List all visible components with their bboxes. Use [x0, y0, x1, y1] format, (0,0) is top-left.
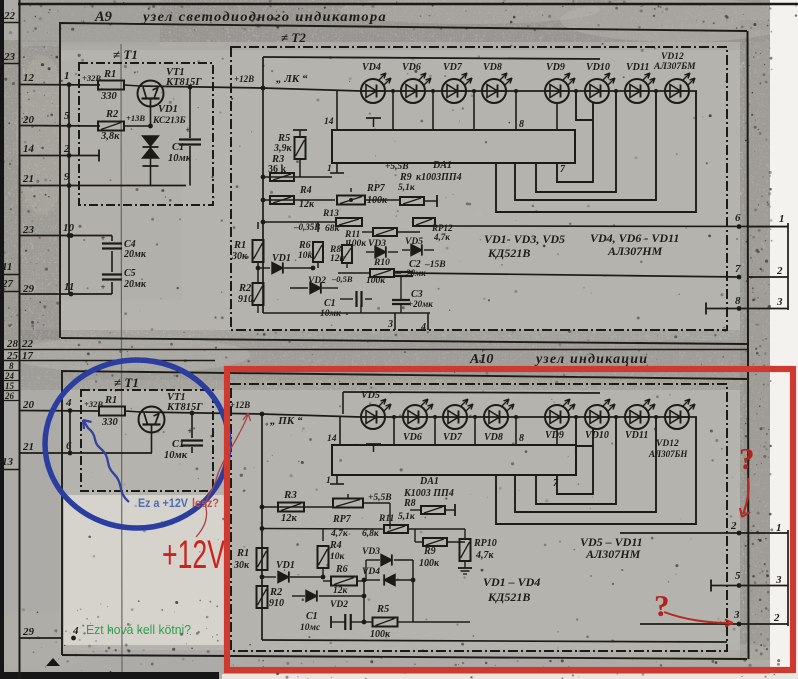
svg-text:6: 6: [735, 212, 741, 224]
svg-text:VD1: VD1: [272, 253, 291, 264]
pin 4 stub: [427, 313, 429, 330]
T2 dash-dot box (A10): [231, 384, 727, 651]
svg-text:VD5: VD5: [361, 390, 380, 401]
svg-text:VD3: VD3: [368, 239, 386, 249]
svg-text:КТ815Г: КТ815Г: [166, 402, 203, 413]
svg-text:2: 2: [773, 612, 780, 624]
svg-text:VD9: VD9: [545, 430, 564, 441]
T1 dash-dot box: [79, 63, 213, 205]
diode VD1 (A10): [262, 576, 276, 578]
resistor R6: [317, 222, 319, 232]
ground RP10: [458, 567, 472, 569]
svg-text:2: 2: [776, 265, 783, 277]
svg-text:3,8к: 3,8к: [100, 131, 120, 142]
ground rail A9 T2: [263, 312, 430, 314]
svg-text:8: 8: [519, 119, 524, 130]
svg-text:27: 27: [1, 278, 14, 290]
svg-text:910: 910: [238, 294, 253, 305]
svg-text:20: 20: [22, 114, 35, 126]
svg-text:100к: 100к: [370, 629, 391, 640]
svg-text:R1: R1: [233, 240, 246, 251]
svg-text:10к: 10к: [330, 552, 346, 562]
capacitor C1 of T1: [189, 87, 191, 138]
LED VD5 (A10): [361, 405, 385, 429]
svg-text:VD4: VD4: [362, 62, 381, 73]
resistor R2 (A9 T2): [253, 283, 264, 305]
svg-text:VD2: VD2: [330, 600, 348, 610]
svg-text:10мк: 10мк: [164, 450, 188, 461]
svg-text:„ ПК “: „ ПК “: [270, 415, 303, 427]
svg-text:R4: R4: [299, 185, 312, 196]
separator line under 28-22: [0, 349, 747, 351]
red thin arrow to +12V label: [196, 414, 248, 537]
right bracket wire (A10): [787, 530, 789, 626]
potentiometer RP10 (A10): [464, 529, 466, 539]
staircase tap 2: [536, 91, 616, 192]
pin 1 stub (A10): [336, 475, 338, 484]
right bracket wire: [787, 223, 789, 310]
svg-text:12к: 12к: [299, 199, 315, 210]
svg-text:VD2: VD2: [308, 276, 326, 286]
svg-text:VD5: VD5: [405, 237, 423, 247]
resistor R4 (A10): [322, 529, 324, 541]
capacitor C5: [102, 273, 122, 275]
svg-text:VD10: VD10: [585, 430, 609, 441]
resistor R2: [98, 122, 124, 131]
svg-text:VD6: VD6: [403, 432, 422, 443]
LED VD4 (A9): [361, 79, 385, 103]
resistor R8: [342, 245, 352, 263]
transistor VT1: [138, 81, 164, 107]
svg-text:Ez a +12V: Ez a +12V: [138, 496, 188, 510]
svg-text:DА1: DА1: [432, 160, 452, 171]
svg-text:R9: R9: [423, 546, 436, 557]
LED row wire (A10): [262, 414, 361, 417]
diode VD1 (A9 T2): [258, 267, 270, 269]
svg-text:5: 5: [735, 570, 741, 582]
svg-text:330: 330: [100, 91, 118, 102]
R3 row wire: [263, 176, 332, 178]
resistor R1 (A10 T2): [257, 548, 268, 570]
svg-text:АЛ307БН: АЛ307БН: [648, 449, 688, 459]
wire VT1 emitter (A10): [151, 432, 153, 453]
capacitor C1 (A10 T1): [191, 413, 193, 438]
diode VD2: [290, 287, 308, 289]
svg-text:6: 6: [66, 440, 72, 452]
A9 outer box: [60, 23, 747, 338]
svg-text:5,1к: 5,1к: [398, 183, 416, 193]
wire tap to IC pin b (A10): [434, 417, 436, 445]
svg-text:1: 1: [779, 213, 785, 225]
pin 8 junction wire: [515, 91, 517, 130]
resistor R2 (A10 T2): [257, 586, 268, 608]
svg-text:+: +: [185, 125, 190, 135]
pin 8 junction (A10): [515, 417, 517, 445]
diode VD4 (A10): [364, 579, 380, 581]
svg-text:22: 22: [3, 10, 16, 22]
svg-text:КД521В: КД521В: [487, 246, 530, 260]
resistor R13: [336, 218, 362, 226]
svg-text:3: 3: [776, 296, 783, 308]
svg-text:R8: R8: [403, 498, 416, 509]
transistor VT1 (A10): [139, 407, 165, 433]
capacitor C4: [102, 242, 122, 244]
svg-text:330: 330: [101, 417, 119, 428]
staircase tap 1: [557, 91, 593, 182]
svg-text:6,8к: 6,8к: [362, 529, 380, 539]
svg-text:R1: R1: [104, 395, 117, 406]
staircase tap 3: [515, 91, 656, 200]
svg-text:КС213Б: КС213Б: [152, 116, 186, 126]
svg-text:8: 8: [735, 295, 741, 307]
pin bus (A10): [69, 411, 71, 454]
svg-text:14: 14: [327, 434, 337, 444]
svg-text:R9: R9: [399, 172, 412, 183]
svg-text:+: +: [101, 234, 106, 243]
svg-text:1: 1: [326, 476, 331, 486]
R4 row wire: [263, 199, 335, 201]
diode VD2 (A10): [292, 595, 305, 597]
staircase tap 1 (A10): [557, 417, 593, 494]
svg-text:„ ЛК “: „ ЛК “: [276, 73, 308, 85]
svg-text:11: 11: [64, 281, 74, 293]
svg-text:30к: 30к: [233, 560, 250, 571]
LED VD6 (A9): [401, 79, 425, 103]
LED VD9 (A9): [545, 79, 569, 103]
diode VD3 (A10): [366, 559, 380, 561]
T2 left rail: [262, 57, 264, 313]
wire VD1 to ground rail: [150, 158, 152, 186]
resistor R9 (A10): [423, 538, 447, 546]
bottom black scanner bar: [0, 672, 219, 679]
pin 7 wire VD9 (A10): [556, 429, 558, 445]
svg-text:АЛ307БМ: АЛ307БМ: [653, 62, 696, 72]
red arrow 1: [743, 478, 749, 514]
svg-text:12: 12: [23, 72, 35, 84]
svg-text:10: 10: [63, 222, 75, 234]
blue squiggle arrow: [83, 420, 129, 502]
LED VD6 (A10): [403, 405, 427, 429]
svg-text:DА1: DА1: [419, 476, 439, 487]
wire R2 to VD1 node: [124, 125, 151, 127]
svg-text:–15В: –15В: [424, 260, 446, 270]
pin 14 stub (A10): [339, 416, 341, 445]
svg-text:VD1: VD1: [276, 560, 295, 571]
svg-text:С1: С1: [324, 298, 336, 309]
svg-text:22: 22: [21, 338, 34, 350]
svg-text:+5,5В: +5,5В: [385, 162, 409, 172]
svg-text:VD1: VD1: [158, 104, 178, 115]
svg-text:23: 23: [3, 51, 16, 63]
svg-text:+20мк: +20мк: [408, 299, 433, 309]
T2 inner box top: [263, 57, 600, 59]
svg-text:VD6: VD6: [402, 62, 421, 73]
svg-text:RP10: RP10: [473, 538, 497, 549]
svg-text:3: 3: [733, 609, 740, 621]
svg-text:3,9к: 3,9к: [273, 143, 293, 154]
wire R1-R2 node: [257, 262, 259, 283]
T2 inner box top (A10): [343, 392, 600, 393]
resistor R1 (A10): [99, 407, 125, 416]
svg-text:R13: R13: [322, 209, 339, 219]
svg-text:100к: 100к: [366, 276, 386, 286]
resistor R11 (A10): [384, 525, 408, 533]
svg-text:VD4: VD4: [362, 567, 380, 577]
svg-text:R11: R11: [378, 514, 394, 524]
capacitor C2: [395, 271, 413, 273]
svg-text:12к: 12к: [330, 254, 346, 264]
wire C4 column: [111, 236, 113, 242]
svg-text:VD7: VD7: [443, 62, 463, 73]
svg-text:RP7: RP7: [332, 514, 352, 525]
svg-text:С1: С1: [306, 611, 318, 622]
R13 row wire: [263, 221, 335, 223]
LED VD7 (A10): [443, 405, 467, 429]
svg-text:21: 21: [22, 441, 34, 453]
pin 14 stub (A9): [336, 90, 338, 130]
svg-text:4: 4: [72, 625, 79, 637]
T1 dash-dot box (A10): [81, 390, 213, 491]
svg-text:?: ?: [654, 588, 670, 623]
inner pin bus: [68, 85, 70, 295]
LED VD8 (A9): [482, 79, 506, 103]
svg-text:VD11: VD11: [625, 430, 648, 441]
svg-text:21: 21: [22, 173, 34, 185]
cathode end mark VD5: [366, 443, 381, 445]
svg-text:к1003ПП4: к1003ПП4: [416, 172, 462, 183]
svg-text:R2: R2: [238, 283, 252, 294]
svg-text:20мк: 20мк: [123, 249, 147, 260]
svg-text:4,7к: 4,7к: [475, 550, 495, 561]
wire -15V long: [408, 273, 739, 277]
svg-text:–0,35В: –0,35В: [293, 222, 320, 232]
capacitor C3: [392, 299, 410, 301]
svg-text:14: 14: [23, 143, 35, 155]
svg-text:1: 1: [64, 70, 70, 82]
LED row wire A9: [263, 88, 361, 91]
svg-text:VD11: VD11: [626, 62, 649, 73]
svg-text:Ezt hová kell kötni?: Ezt hová kell kötni?: [86, 622, 191, 637]
svg-text:≠ Т1: ≠ Т1: [113, 47, 138, 62]
svg-text:VD8: VD8: [484, 432, 503, 443]
wire tap to IC pin a: [392, 91, 394, 130]
svg-text:3: 3: [775, 574, 782, 586]
resistor R10: [370, 269, 394, 277]
svg-text:11: 11: [2, 261, 12, 273]
staircase tap 4: [496, 91, 696, 212]
A9 right edge: [748, 31, 749, 659]
LED VD11 (A10): [625, 405, 649, 429]
svg-text:10к: 10к: [298, 251, 314, 261]
svg-text:12к: 12к: [333, 586, 349, 596]
LED VD10 (A10): [585, 405, 609, 429]
zener VD1: [143, 136, 159, 146]
svg-text:4: 4: [65, 397, 72, 409]
svg-text:68к: 68к: [325, 224, 341, 234]
svg-text:С1: С1: [172, 142, 184, 153]
resistor R4: [270, 196, 294, 204]
pin 1 stub (A9): [336, 163, 338, 173]
svg-text:10мк: 10мк: [168, 153, 192, 164]
svg-text:+12V: +12V: [162, 533, 225, 577]
diode VD3: [366, 251, 374, 253]
svg-text:30к: 30к: [231, 251, 248, 262]
potentiometer RP12: [413, 218, 435, 226]
svg-text:VD7: VD7: [443, 432, 463, 443]
cathode end mark VD4: [366, 117, 381, 119]
svg-text:А10: А10: [469, 352, 493, 367]
LED VD7 (A9): [442, 79, 466, 103]
svg-text:20мк: 20мк: [123, 279, 147, 290]
LED VD8 (A10): [484, 405, 508, 429]
resistor R5: [293, 129, 307, 131]
svg-text:узел индикации: узел индикации: [534, 352, 648, 367]
svg-text:+12В: +12В: [230, 400, 250, 410]
svg-text:VD10: VD10: [586, 62, 610, 73]
resistor R11: [373, 228, 397, 236]
svg-text:R6: R6: [335, 564, 348, 575]
LED VD12 (A10): [665, 405, 689, 429]
resistor R3 (A10): [278, 503, 304, 512]
long wire to pin 6: [430, 225, 788, 228]
LED VD9 (A10): [545, 405, 569, 429]
wire tap to IC pin c (A10): [474, 417, 476, 445]
wire VT1 collector to +12V rail: [140, 86, 263, 88]
red rectangle annotation: [227, 369, 793, 670]
svg-text:R6: R6: [298, 240, 311, 251]
svg-text:5,1к: 5,1к: [398, 512, 416, 522]
svg-text:R2: R2: [105, 109, 119, 120]
svg-text:R5: R5: [376, 604, 389, 615]
page fold crease: [121, 44, 122, 672]
svg-text:VD1- VD3, VD5: VD1- VD3, VD5: [484, 232, 565, 246]
svg-text:R1: R1: [236, 548, 249, 559]
svg-text:?: ?: [739, 441, 755, 476]
svg-text:12к: 12к: [281, 513, 298, 524]
staircase tap 4 (A10): [496, 417, 696, 524]
resistor R5 (A10): [373, 618, 398, 627]
svg-text:+: +: [187, 426, 192, 436]
staircase tap 3 (A10): [515, 417, 656, 512]
svg-text:АЛ307НМ: АЛ307НМ: [607, 244, 663, 258]
R3 row wire (A10): [262, 506, 332, 508]
svg-text:100к: 100к: [419, 558, 440, 569]
svg-text:С1: С1: [172, 439, 184, 450]
LED VD12 (A9): [665, 79, 689, 103]
svg-text:3: 3: [387, 319, 393, 330]
svg-text:VD12: VD12: [656, 439, 679, 449]
svg-text:1: 1: [327, 164, 332, 174]
svg-text:R2: R2: [269, 587, 283, 598]
wire R1-VT1 (A10): [125, 411, 141, 412]
potentiometer RP7: [337, 196, 365, 205]
svg-text:R3: R3: [283, 489, 297, 501]
svg-text:VD8: VD8: [483, 62, 502, 73]
IC DA1 box (A10): [332, 445, 576, 475]
diode VD5: [402, 249, 410, 251]
staircase tap 2 (A10): [536, 417, 616, 504]
svg-text:14: 14: [324, 117, 334, 127]
wire tap to IC pin b: [432, 91, 434, 130]
svg-text:≠ Т2: ≠ Т2: [281, 30, 306, 45]
pin 3 stub: [394, 313, 396, 330]
svg-text:R4: R4: [329, 540, 342, 551]
wire tap to IC pin c: [473, 91, 475, 130]
svg-text:15: 15: [5, 381, 15, 391]
svg-text:VD9: VD9: [546, 62, 565, 73]
pin 7 wire VD9: [556, 103, 558, 130]
svg-text:8: 8: [519, 433, 524, 444]
svg-text:910: 910: [269, 598, 284, 609]
svg-text:АЛ307НМ: АЛ307НМ: [585, 547, 641, 561]
svg-text:7: 7: [735, 263, 741, 275]
wire VT1 to +12V (A10): [141, 412, 262, 414]
svg-text:–0,5В: –0,5В: [331, 274, 353, 284]
svg-text:VD3: VD3: [362, 547, 380, 557]
svg-text:+5,5В: +5,5В: [368, 493, 392, 503]
svg-text:29: 29: [22, 626, 35, 638]
svg-text:10мс: 10мс: [300, 623, 321, 633]
svg-text:10мк: 10мк: [320, 309, 342, 319]
svg-text:VD12: VD12: [661, 52, 684, 62]
A10 outer box: [62, 371, 747, 655]
resistor R1: [98, 81, 124, 90]
svg-text:R10: R10: [373, 258, 390, 268]
LED VD11 (A9): [625, 79, 649, 103]
red arrow 2: [664, 612, 729, 623]
svg-text:4,7к: 4,7к: [433, 232, 450, 242]
LED VD10 (A9): [585, 79, 609, 103]
svg-text:RP7: RP7: [366, 183, 386, 194]
svg-text:≠ Т1: ≠ Т1: [114, 375, 139, 390]
svg-text:2: 2: [730, 520, 737, 532]
svg-text:8: 8: [9, 361, 14, 371]
svg-text:28: 28: [6, 338, 19, 350]
wire tap to IC pin a (A10): [393, 417, 395, 445]
svg-text:+13В: +13В: [126, 113, 145, 123]
top border line: [18, 3, 798, 6]
wire R1 to VT1: [124, 85, 140, 86]
svg-text:VD1 – VD4: VD1 – VD4: [483, 575, 540, 589]
black scanner edge bar left: [0, 0, 4, 679]
resistor R6 (A10): [323, 580, 331, 582]
svg-text:VD4, VD6 - VD11: VD4, VD6 - VD11: [590, 231, 679, 245]
resistor R1 (A9 T2): [257, 222, 259, 229]
resistor R3: [270, 173, 294, 181]
T2 inner box bottom (A10): [262, 640, 727, 642]
terminal strip vertical rule: [19, 0, 21, 679]
svg-text:23: 23: [22, 224, 35, 236]
T2 dash-dot box: [231, 47, 727, 330]
IC DA1 box (A9): [332, 130, 575, 163]
svg-text:узел светодиодного индикатор: узел светодиодного индикатора: [141, 10, 387, 25]
T2 left rail (A10): [261, 414, 263, 640]
separator line under 25-17: [0, 360, 215, 362]
svg-text:26: 26: [4, 391, 15, 401]
svg-text:4,7к: 4,7к: [330, 529, 349, 539]
potentiometer RP7 (A10): [333, 499, 363, 508]
svg-text:13: 13: [2, 456, 14, 468]
svg-text:+: +: [101, 283, 106, 292]
svg-text:КД521В: КД521В: [487, 590, 530, 604]
blue circle annotation: [45, 360, 229, 528]
svg-text:С5: С5: [124, 268, 136, 279]
resistor R9 row: [400, 197, 424, 205]
svg-text:4: 4: [420, 322, 426, 333]
svg-text:20: 20: [22, 399, 35, 411]
capacitor C1 (A9 T2): [355, 291, 357, 307]
svg-text:R1: R1: [103, 69, 116, 80]
